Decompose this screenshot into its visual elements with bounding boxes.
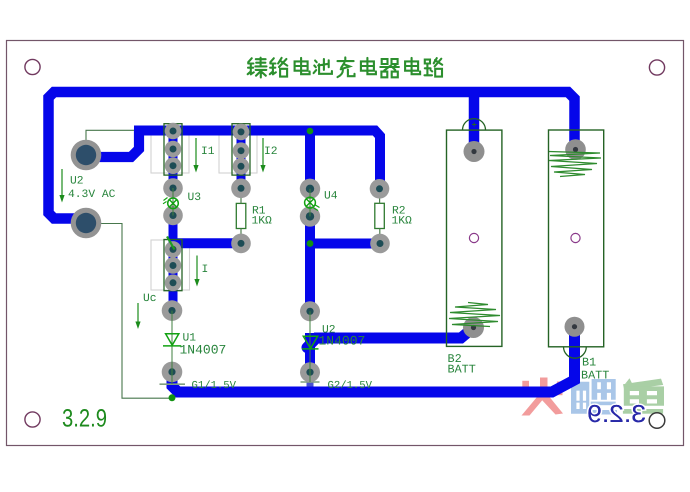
resistor R1 body (236, 203, 246, 228)
wire: top rail drop to B2 plus pad (469, 92, 480, 152)
svg-text:1KΩ: 1KΩ (392, 216, 413, 228)
arrow current I1 (193, 138, 198, 173)
battery B2 plus-terminal arc (463, 119, 486, 130)
V3 body lead (172, 188, 174, 216)
diode V1 symbol (163, 334, 181, 346)
pad V3 anode (163, 178, 183, 198)
wire: Q1 pads column down to V3 (169, 128, 178, 188)
pad Q1 pin1 (165, 123, 182, 140)
net line from U2 pin1 (86, 130, 134, 155)
node G1 battery symbol (160, 383, 186, 385)
svg-text:G2/1.5V: G2/1.5V (328, 380, 373, 392)
pad V1 anode (162, 362, 183, 383)
mounting hole bottom-left (25, 412, 40, 427)
pad B1 plus (565, 139, 586, 160)
pad V3 cathode (163, 206, 183, 226)
transistor Q3 outline (164, 240, 182, 291)
resistor R2 body (375, 203, 385, 228)
LED V4 symbol (305, 197, 320, 210)
title text 镍铬电池充电器电路 (248, 57, 443, 77)
arrow current I (194, 256, 199, 287)
svg-text:BATT: BATT (581, 369, 609, 383)
svg-text:I1: I1 (201, 146, 215, 158)
watermark logo 火 (522, 378, 564, 416)
pad Q2 pin2 (233, 142, 250, 159)
svg-text:I: I (202, 264, 209, 276)
svg-text:1N4007: 1N4007 (180, 343, 227, 358)
wire: V2 anode down to G2 area (305, 333, 315, 372)
wire: node at Q3 to R1 bottom pad (175, 238, 241, 248)
pad R1 pin2 (231, 234, 251, 254)
battery B1 outline (549, 130, 604, 347)
mounting hole bottom-right (649, 413, 665, 429)
pad Q3 pin1 (165, 241, 182, 258)
svg-text:U4: U4 (324, 191, 338, 203)
wire: Q3 column to V1 (169, 252, 178, 311)
V4 body lead (309, 189, 311, 217)
junction node G1 (169, 394, 176, 401)
pad Q3 pin3 (165, 275, 182, 292)
pad R1 pin1 (231, 179, 251, 199)
node G2 battery symbol (301, 381, 320, 383)
pad Q2 pin3 (233, 158, 250, 175)
mounting hole top-left (25, 59, 40, 74)
wire: Q2 pads column down to R1 (237, 128, 246, 188)
resistor R1 leads (240, 194, 242, 239)
wire: V3 to Q3 column (169, 216, 178, 253)
arrow voltage Uc (135, 303, 140, 329)
battery B1 minus-terminal arc (564, 347, 587, 358)
net line V3 cathode to Q3 (167, 237, 175, 250)
pad Q2 pin1 (233, 124, 250, 141)
svg-text:I2: I2 (264, 146, 278, 158)
transistor Q1 outline (164, 124, 182, 175)
mirrored sheet number 3.2.9 (587, 401, 646, 428)
battery B2 spring contact (449, 303, 500, 327)
battery B2 outline (447, 130, 502, 346)
V2 body lead (309, 311, 311, 382)
pad B1 minus (565, 317, 585, 337)
wire: branch to B2 minus pad (307, 328, 474, 348)
pad R2 pin2 (370, 234, 390, 254)
pad Q3 pin2 (165, 257, 182, 274)
svg-text:Uc: Uc (143, 293, 157, 305)
svg-text:B1: B1 (582, 356, 596, 370)
pad Q1 pin3 (165, 157, 182, 174)
pad V2 cathode (300, 301, 320, 321)
svg-text:3.2.9: 3.2.9 (62, 405, 107, 433)
svg-text:1N4007: 1N4007 (319, 334, 366, 349)
arrow current I2 (260, 138, 265, 173)
pad U2 pin1 (71, 140, 102, 171)
svg-text:4.3V AC: 4.3V AC (68, 189, 116, 201)
wire: inner rail to R2 (134, 131, 380, 189)
V1 body lead (171, 311, 173, 384)
battery B2 hole (469, 233, 478, 242)
wire: V1 down, bottom rail, riser to B1 minus pad (172, 327, 575, 392)
resistor R2 leads (379, 194, 381, 239)
watermark 鲤 (571, 379, 617, 415)
wire: inner rail drop to V4 (305, 131, 315, 189)
pad V4 anode (300, 179, 320, 199)
svg-text:U3: U3 (188, 192, 202, 204)
junction node on inner rail (307, 128, 314, 135)
wire: node to R2 bottom pad (310, 239, 380, 249)
pad V1 cathode (162, 300, 183, 321)
wire: V4 bottom through node to V2 (305, 216, 315, 311)
transistor Q3 bottom-silk box (151, 240, 190, 290)
pad V2 anode (300, 362, 320, 382)
transistor Q2 bottom-silk box (219, 135, 257, 173)
pad B2 minus (463, 317, 484, 338)
svg-text:1KΩ: 1KΩ (252, 216, 273, 228)
pad R2 pin1 (370, 179, 390, 199)
battery B1 hole (571, 233, 580, 242)
mounting hole top-right (649, 60, 664, 75)
svg-text:U2: U2 (70, 176, 84, 188)
wire: U2 pin2 left riser and top rail to B1 (49, 92, 575, 219)
junction node at R2 rail (307, 240, 314, 247)
pad B2 plus (464, 141, 485, 162)
LED V3 symbol (163, 198, 178, 209)
arrow U2 voltage (59, 169, 64, 203)
svg-text:3.2.9: 3.2.9 (587, 401, 646, 428)
net line from U2 pin2 to node G1 (86, 224, 170, 399)
pad V4 cathode (300, 206, 320, 226)
svg-text:G1/1.5V: G1/1.5V (192, 380, 237, 392)
pad Q1 pin2 (165, 141, 182, 158)
diode V2 symbol (302, 336, 319, 349)
battery B1 spring contact (549, 152, 601, 177)
transistor Q1 bottom-silk box (151, 135, 189, 173)
transistor Q2 outline (232, 124, 250, 175)
watermark 鱼 (623, 378, 664, 413)
wire: U2 pin1 stub and riser to inner rail (86, 131, 139, 157)
svg-text:BATT: BATT (448, 363, 476, 377)
wire: G2 stub to bottom rail (307, 372, 314, 391)
pad U2 pin2 (71, 208, 102, 239)
